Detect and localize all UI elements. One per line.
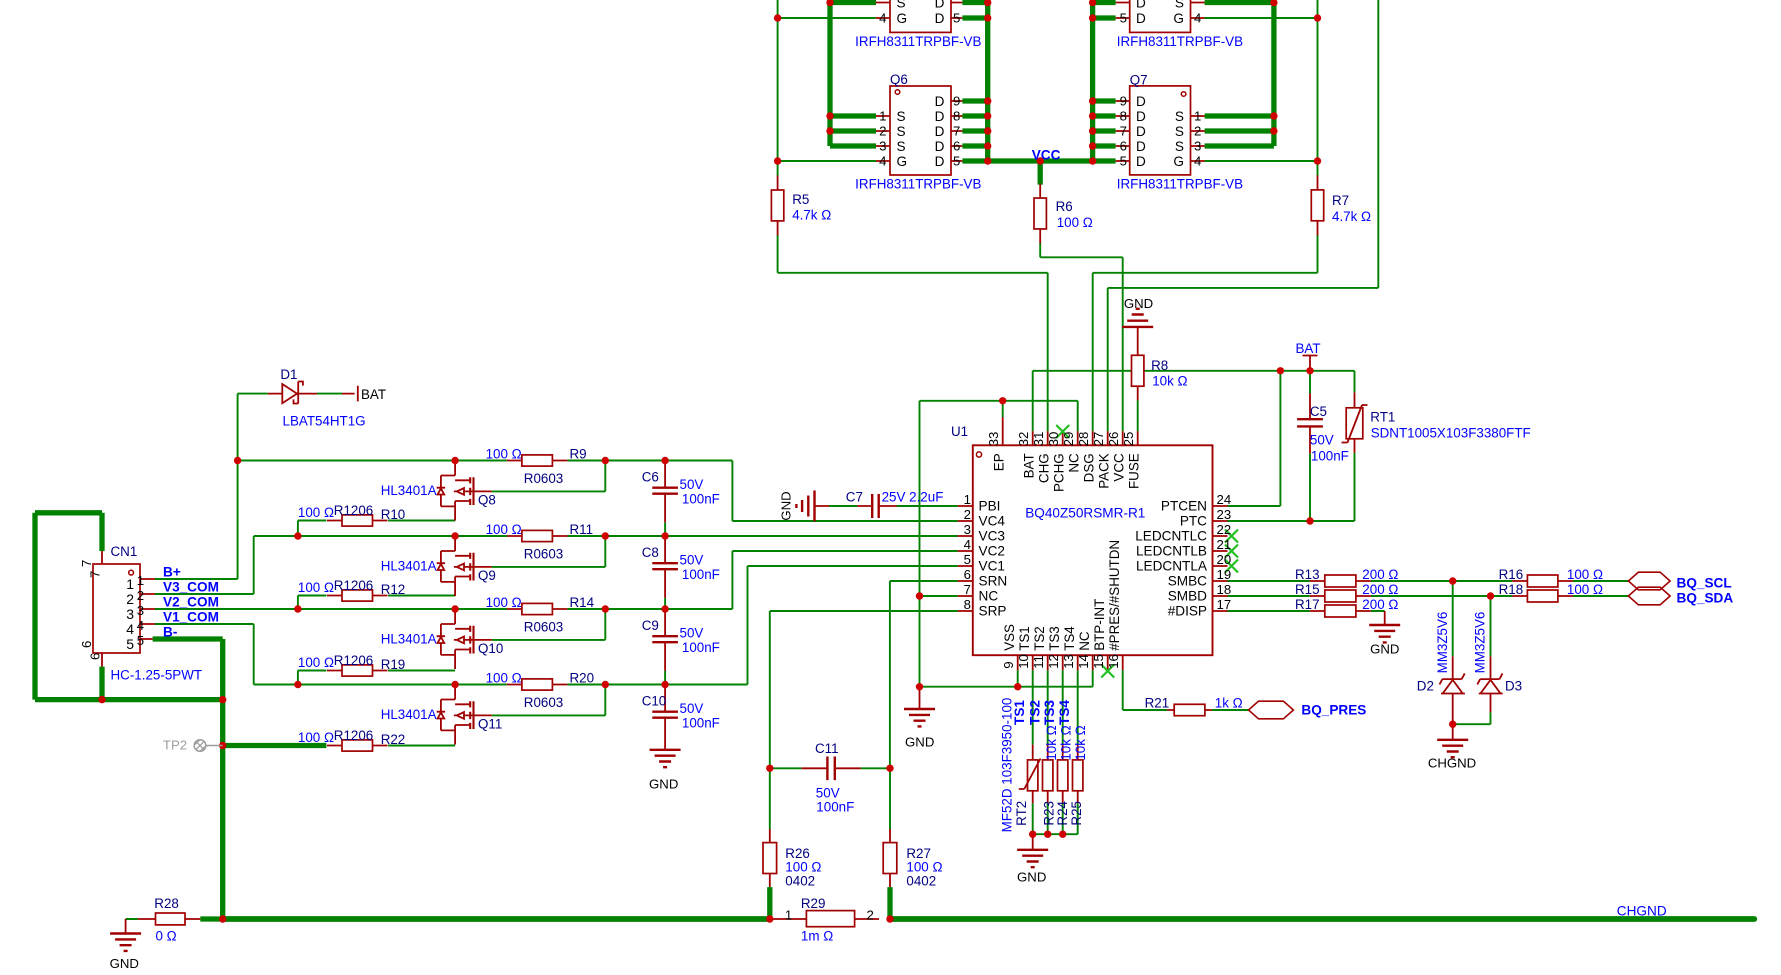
svg-text:BQ40Z50RSMR-R1: BQ40Z50RSMR-R1	[1025, 506, 1145, 521]
svg-text:R20: R20	[570, 671, 595, 686]
svg-text:2: 2	[1194, 124, 1201, 139]
svg-text:2: 2	[126, 591, 134, 607]
svg-text:22: 22	[1217, 522, 1232, 537]
svg-text:R11: R11	[570, 522, 594, 537]
svg-text:Q8: Q8	[478, 493, 496, 508]
svg-text:FUSE: FUSE	[1127, 453, 1142, 489]
svg-text:6: 6	[953, 139, 960, 154]
svg-text:S: S	[897, 0, 906, 11]
svg-text:C11: C11	[815, 741, 839, 756]
svg-text:10k Ω: 10k Ω	[1059, 725, 1074, 760]
svg-text:GND: GND	[1370, 642, 1399, 657]
svg-text:Q7: Q7	[1130, 72, 1148, 87]
svg-text:PTCEN: PTCEN	[1161, 499, 1207, 514]
svg-text:VCC: VCC	[1112, 453, 1127, 482]
svg-text:50V: 50V	[1310, 433, 1334, 448]
svg-text:R0603: R0603	[524, 620, 563, 635]
svg-text:100nF: 100nF	[682, 716, 720, 731]
svg-text:200 Ω: 200 Ω	[1362, 567, 1398, 582]
svg-text:C10: C10	[642, 694, 667, 709]
svg-text:4: 4	[137, 618, 144, 633]
svg-text:8: 8	[953, 109, 960, 124]
svg-text:200 Ω: 200 Ω	[1362, 582, 1398, 597]
svg-text:5: 5	[137, 633, 144, 648]
svg-text:5: 5	[1120, 154, 1127, 169]
svg-text:R1206: R1206	[334, 578, 373, 593]
svg-text:MM3Z5V6: MM3Z5V6	[1473, 612, 1488, 674]
svg-text:VCC: VCC	[1032, 148, 1061, 163]
svg-text:SDNT1005X103F3380FTF: SDNT1005X103F3380FTF	[1371, 426, 1531, 441]
svg-text:100 Ω: 100 Ω	[486, 595, 522, 610]
svg-text:BTP-INT: BTP-INT	[1092, 599, 1107, 651]
svg-text:VC2: VC2	[979, 544, 1005, 559]
svg-text:S: S	[1175, 139, 1184, 154]
svg-text:100 Ω: 100 Ω	[1057, 215, 1093, 230]
svg-text:GND: GND	[905, 735, 934, 750]
svg-text:9: 9	[953, 94, 960, 109]
svg-text:R28: R28	[154, 896, 179, 911]
svg-text:100 Ω: 100 Ω	[298, 730, 334, 745]
svg-text:B+: B+	[163, 565, 181, 580]
svg-text:6: 6	[79, 641, 94, 648]
svg-text:100 Ω: 100 Ω	[906, 860, 942, 875]
svg-text:Q9: Q9	[478, 568, 496, 583]
svg-text:#DISP: #DISP	[1168, 604, 1207, 619]
svg-text:R8: R8	[1151, 358, 1168, 373]
svg-text:Q11: Q11	[478, 717, 502, 732]
svg-text:R25: R25	[1069, 801, 1084, 826]
svg-text:Q6: Q6	[890, 72, 908, 87]
svg-text:100 Ω: 100 Ω	[1567, 567, 1603, 582]
svg-text:CN1: CN1	[111, 544, 138, 559]
svg-text:100 Ω: 100 Ω	[486, 447, 522, 462]
svg-text:6: 6	[964, 567, 971, 582]
svg-text:TS2: TS2	[1032, 626, 1047, 651]
svg-text:D: D	[935, 124, 945, 139]
svg-text:4: 4	[1194, 11, 1201, 26]
svg-text:100nF: 100nF	[682, 567, 720, 582]
svg-text:1: 1	[879, 109, 886, 124]
svg-text:R24: R24	[1055, 800, 1070, 825]
svg-text:2: 2	[879, 124, 886, 139]
svg-text:R23: R23	[1041, 801, 1056, 826]
svg-text:PACK: PACK	[1097, 453, 1112, 489]
svg-text:7: 7	[79, 560, 94, 567]
svg-text:6: 6	[1120, 139, 1127, 154]
svg-text:R29: R29	[801, 896, 826, 911]
svg-text:33: 33	[986, 432, 1001, 447]
svg-text:9: 9	[1001, 661, 1016, 668]
svg-text:C9: C9	[642, 618, 659, 633]
svg-text:50V: 50V	[816, 786, 840, 801]
svg-text:VSS: VSS	[1002, 624, 1017, 651]
svg-text:CHGND: CHGND	[1617, 904, 1667, 919]
svg-text:U1: U1	[951, 424, 968, 439]
svg-text:D: D	[1136, 139, 1146, 154]
svg-text:1m Ω: 1m Ω	[801, 929, 833, 944]
svg-text:LBAT54HT1G: LBAT54HT1G	[283, 414, 366, 429]
svg-text:C6: C6	[642, 470, 659, 485]
svg-text:GND: GND	[649, 777, 678, 792]
svg-text:HL3401A: HL3401A	[381, 483, 437, 498]
svg-text:20: 20	[1217, 552, 1232, 567]
svg-text:TS3: TS3	[1042, 700, 1057, 725]
svg-text:13: 13	[1061, 654, 1076, 669]
svg-text:TS3: TS3	[1047, 626, 1062, 651]
svg-text:D: D	[935, 0, 945, 11]
svg-text:100 Ω: 100 Ω	[1567, 582, 1603, 597]
svg-text:IRFH8311TRPBF-VB: IRFH8311TRPBF-VB	[1117, 177, 1243, 192]
svg-text:R12: R12	[381, 582, 406, 597]
svg-text:NC: NC	[1077, 631, 1092, 651]
svg-text:5: 5	[964, 552, 971, 567]
svg-text:3: 3	[964, 522, 971, 537]
svg-text:R5: R5	[792, 192, 809, 207]
svg-text:100nF: 100nF	[682, 492, 720, 507]
svg-text:15: 15	[1091, 654, 1106, 669]
svg-text:SRN: SRN	[979, 574, 1008, 589]
svg-text:50V: 50V	[680, 477, 704, 492]
svg-text:R7: R7	[1332, 193, 1349, 208]
svg-text:S: S	[1175, 0, 1184, 11]
svg-text:R16: R16	[1499, 567, 1524, 582]
svg-text:4.7k Ω: 4.7k Ω	[792, 208, 831, 223]
svg-text:D: D	[1136, 11, 1146, 26]
svg-text:R14: R14	[570, 595, 595, 610]
svg-text:RT2: RT2	[1014, 801, 1029, 826]
svg-text:50V: 50V	[680, 553, 704, 568]
svg-text:9: 9	[1120, 94, 1127, 109]
svg-text:G: G	[897, 11, 908, 26]
svg-text:D2: D2	[1417, 679, 1434, 694]
svg-text:D: D	[1136, 109, 1146, 124]
svg-text:S: S	[897, 124, 906, 139]
svg-text:HC-1.25-5PWT: HC-1.25-5PWT	[111, 668, 203, 683]
svg-text:200 Ω: 200 Ω	[1362, 597, 1398, 612]
svg-text:HL3401A: HL3401A	[381, 707, 437, 722]
svg-text:TS1: TS1	[1017, 626, 1032, 651]
svg-text:R1206: R1206	[334, 653, 373, 668]
svg-text:17: 17	[1217, 597, 1232, 612]
svg-text:25: 25	[1121, 432, 1136, 447]
svg-text:R1206: R1206	[334, 503, 373, 518]
svg-text:HL3401A: HL3401A	[381, 632, 437, 647]
svg-text:GND: GND	[1124, 296, 1153, 311]
svg-text:PTC: PTC	[1180, 514, 1207, 529]
svg-text:B-: B-	[163, 625, 177, 640]
svg-text:30: 30	[1046, 432, 1061, 447]
svg-text:R22: R22	[381, 732, 406, 747]
svg-text:5: 5	[126, 636, 134, 652]
svg-text:18: 18	[1217, 582, 1232, 597]
svg-text:G: G	[1173, 154, 1184, 169]
svg-text:32: 32	[1016, 432, 1031, 447]
svg-text:BQ_PRES: BQ_PRES	[1301, 703, 1366, 718]
svg-text:D: D	[1136, 154, 1146, 169]
svg-text:31: 31	[1031, 432, 1046, 447]
svg-text:D: D	[935, 109, 945, 124]
svg-text:24: 24	[1217, 492, 1232, 507]
svg-text:4: 4	[964, 537, 971, 552]
svg-text:0 Ω: 0 Ω	[156, 929, 177, 944]
svg-text:1: 1	[137, 573, 144, 588]
svg-text:GND: GND	[110, 956, 139, 970]
svg-text:3: 3	[1194, 139, 1201, 154]
svg-text:GND: GND	[779, 491, 794, 520]
svg-text:VC1: VC1	[979, 559, 1005, 574]
svg-text:NC: NC	[1067, 453, 1082, 473]
svg-text:3: 3	[879, 139, 886, 154]
svg-text:G: G	[897, 154, 908, 169]
svg-text:100 Ω: 100 Ω	[486, 671, 522, 686]
svg-text:7: 7	[964, 582, 971, 597]
svg-text:11: 11	[1031, 655, 1046, 669]
svg-text:BAT: BAT	[1022, 453, 1037, 478]
svg-text:29: 29	[1061, 432, 1076, 447]
svg-text:100nF: 100nF	[682, 640, 720, 655]
svg-text:SRP: SRP	[979, 604, 1007, 619]
svg-text:BQ_SDA: BQ_SDA	[1677, 591, 1734, 606]
svg-text:R0603: R0603	[524, 471, 563, 486]
svg-text:4: 4	[879, 11, 886, 26]
svg-text:CHGND: CHGND	[1428, 756, 1476, 771]
svg-text:8: 8	[1120, 109, 1127, 124]
svg-text:21: 21	[1217, 537, 1232, 552]
svg-text:D: D	[1136, 94, 1146, 109]
svg-text:19: 19	[1217, 567, 1232, 582]
svg-text:EP: EP	[992, 453, 1007, 471]
svg-text:R0603: R0603	[524, 547, 563, 562]
svg-text:1: 1	[126, 576, 134, 592]
svg-text:R0603: R0603	[524, 695, 563, 710]
svg-text:6: 6	[88, 653, 103, 660]
svg-text:VC4: VC4	[979, 514, 1006, 529]
svg-text:10k Ω: 10k Ω	[1073, 725, 1088, 760]
svg-text:C5: C5	[1310, 404, 1327, 419]
svg-text:7: 7	[953, 124, 960, 139]
svg-text:D: D	[1136, 0, 1146, 11]
svg-text:LEDCNTLC: LEDCNTLC	[1135, 529, 1207, 544]
svg-text:BAT: BAT	[1296, 341, 1321, 356]
svg-text:SMBD: SMBD	[1168, 589, 1207, 604]
svg-text:4: 4	[1194, 154, 1201, 169]
svg-text:LEDCNTLB: LEDCNTLB	[1136, 544, 1207, 559]
svg-text:R13: R13	[1295, 567, 1320, 582]
svg-text:2: 2	[867, 908, 874, 923]
svg-text:2: 2	[964, 507, 971, 522]
svg-text:1: 1	[785, 908, 792, 923]
svg-text:DSG: DSG	[1082, 453, 1097, 482]
svg-text:4: 4	[879, 154, 886, 169]
svg-text:#PRES/#SHUTDN: #PRES/#SHUTDN	[1107, 540, 1122, 651]
svg-text:S: S	[1175, 124, 1184, 139]
svg-text:TS4: TS4	[1062, 626, 1077, 651]
svg-text:Q10: Q10	[478, 641, 503, 656]
svg-text:26: 26	[1106, 432, 1121, 447]
svg-text:V3_COM: V3_COM	[163, 580, 219, 595]
svg-text:LEDCNTLA: LEDCNTLA	[1136, 559, 1208, 574]
svg-text:5: 5	[1120, 11, 1127, 26]
svg-text:IRFH8311TRPBF-VB: IRFH8311TRPBF-VB	[855, 177, 981, 192]
svg-text:8: 8	[964, 597, 971, 612]
svg-text:100 Ω: 100 Ω	[298, 580, 334, 595]
svg-text:S: S	[897, 109, 906, 124]
svg-text:7: 7	[1120, 124, 1127, 139]
svg-text:12: 12	[1046, 654, 1061, 669]
svg-text:R6: R6	[1056, 199, 1073, 214]
svg-text:S: S	[897, 139, 906, 154]
svg-text:R9: R9	[570, 447, 587, 462]
svg-text:VC3: VC3	[979, 529, 1005, 544]
svg-text:4.7k Ω: 4.7k Ω	[1332, 209, 1371, 224]
svg-text:5: 5	[953, 11, 960, 26]
svg-text:GND: GND	[1017, 870, 1046, 885]
svg-text:4: 4	[126, 621, 134, 637]
svg-text:C8: C8	[642, 545, 659, 560]
svg-text:D: D	[935, 154, 945, 169]
svg-text:R17: R17	[1295, 597, 1320, 612]
svg-text:25V 2.2uF: 25V 2.2uF	[882, 490, 944, 505]
svg-text:0402: 0402	[906, 874, 936, 889]
svg-text:0402: 0402	[785, 874, 815, 889]
svg-text:IRFH8311TRPBF-VB: IRFH8311TRPBF-VB	[855, 34, 981, 49]
svg-text:TP2: TP2	[163, 738, 187, 753]
svg-text:100nF: 100nF	[816, 800, 854, 815]
svg-text:MF52D 103F3950-100: MF52D 103F3950-100	[1000, 698, 1015, 833]
svg-text:D: D	[1136, 124, 1146, 139]
svg-text:V1_COM: V1_COM	[163, 610, 219, 625]
svg-text:PCHG: PCHG	[1052, 453, 1067, 492]
svg-text:7: 7	[88, 571, 103, 578]
svg-text:D: D	[935, 94, 945, 109]
svg-text:R1206: R1206	[334, 728, 373, 743]
svg-text:10: 10	[1016, 654, 1031, 669]
svg-text:3: 3	[137, 603, 144, 618]
svg-text:50V: 50V	[680, 701, 704, 716]
svg-text:50V: 50V	[680, 626, 704, 641]
svg-text:HL3401A: HL3401A	[381, 559, 437, 574]
svg-text:100 Ω: 100 Ω	[785, 860, 821, 875]
svg-text:27: 27	[1091, 432, 1106, 447]
svg-text:1k Ω: 1k Ω	[1215, 696, 1243, 711]
svg-text:2: 2	[137, 588, 144, 603]
svg-text:100 Ω: 100 Ω	[298, 505, 334, 520]
svg-text:100nF: 100nF	[1311, 449, 1349, 464]
svg-text:SMBC: SMBC	[1168, 574, 1207, 589]
svg-text:G: G	[1173, 11, 1184, 26]
svg-text:23: 23	[1217, 507, 1232, 522]
svg-text:TS4: TS4	[1057, 700, 1072, 725]
svg-text:BAT: BAT	[361, 387, 386, 402]
svg-text:3: 3	[126, 606, 134, 622]
svg-text:R21: R21	[1145, 696, 1170, 711]
svg-text:CHG: CHG	[1037, 453, 1052, 483]
svg-text:D: D	[935, 139, 945, 154]
svg-text:1: 1	[1194, 109, 1201, 124]
svg-text:14: 14	[1076, 654, 1091, 669]
svg-text:10k Ω: 10k Ω	[1044, 725, 1059, 760]
svg-text:1: 1	[964, 492, 971, 507]
svg-text:R19: R19	[381, 657, 406, 672]
svg-text:BQ_SCL: BQ_SCL	[1677, 576, 1732, 591]
svg-text:PBI: PBI	[979, 499, 1001, 514]
svg-text:D3: D3	[1505, 679, 1522, 694]
svg-text:S: S	[1175, 109, 1184, 124]
svg-text:RT1: RT1	[1370, 410, 1395, 425]
svg-text:R15: R15	[1295, 582, 1320, 597]
svg-text:16: 16	[1106, 654, 1121, 669]
svg-text:28: 28	[1076, 432, 1091, 447]
svg-text:R10: R10	[381, 507, 406, 522]
svg-text:5: 5	[953, 154, 960, 169]
svg-text:D: D	[935, 11, 945, 26]
svg-text:D1: D1	[280, 367, 297, 382]
svg-text:100 Ω: 100 Ω	[298, 655, 334, 670]
svg-text:100 Ω: 100 Ω	[486, 522, 522, 537]
svg-text:TS2: TS2	[1028, 700, 1043, 725]
svg-text:R18: R18	[1499, 582, 1524, 597]
svg-text:C7: C7	[846, 490, 863, 505]
svg-text:10k Ω: 10k Ω	[1152, 374, 1187, 389]
svg-text:NC: NC	[979, 589, 999, 604]
svg-text:MM3Z5V6: MM3Z5V6	[1435, 612, 1450, 674]
svg-text:V2_COM: V2_COM	[163, 595, 219, 610]
svg-text:IRFH8311TRPBF-VB: IRFH8311TRPBF-VB	[1117, 34, 1243, 49]
